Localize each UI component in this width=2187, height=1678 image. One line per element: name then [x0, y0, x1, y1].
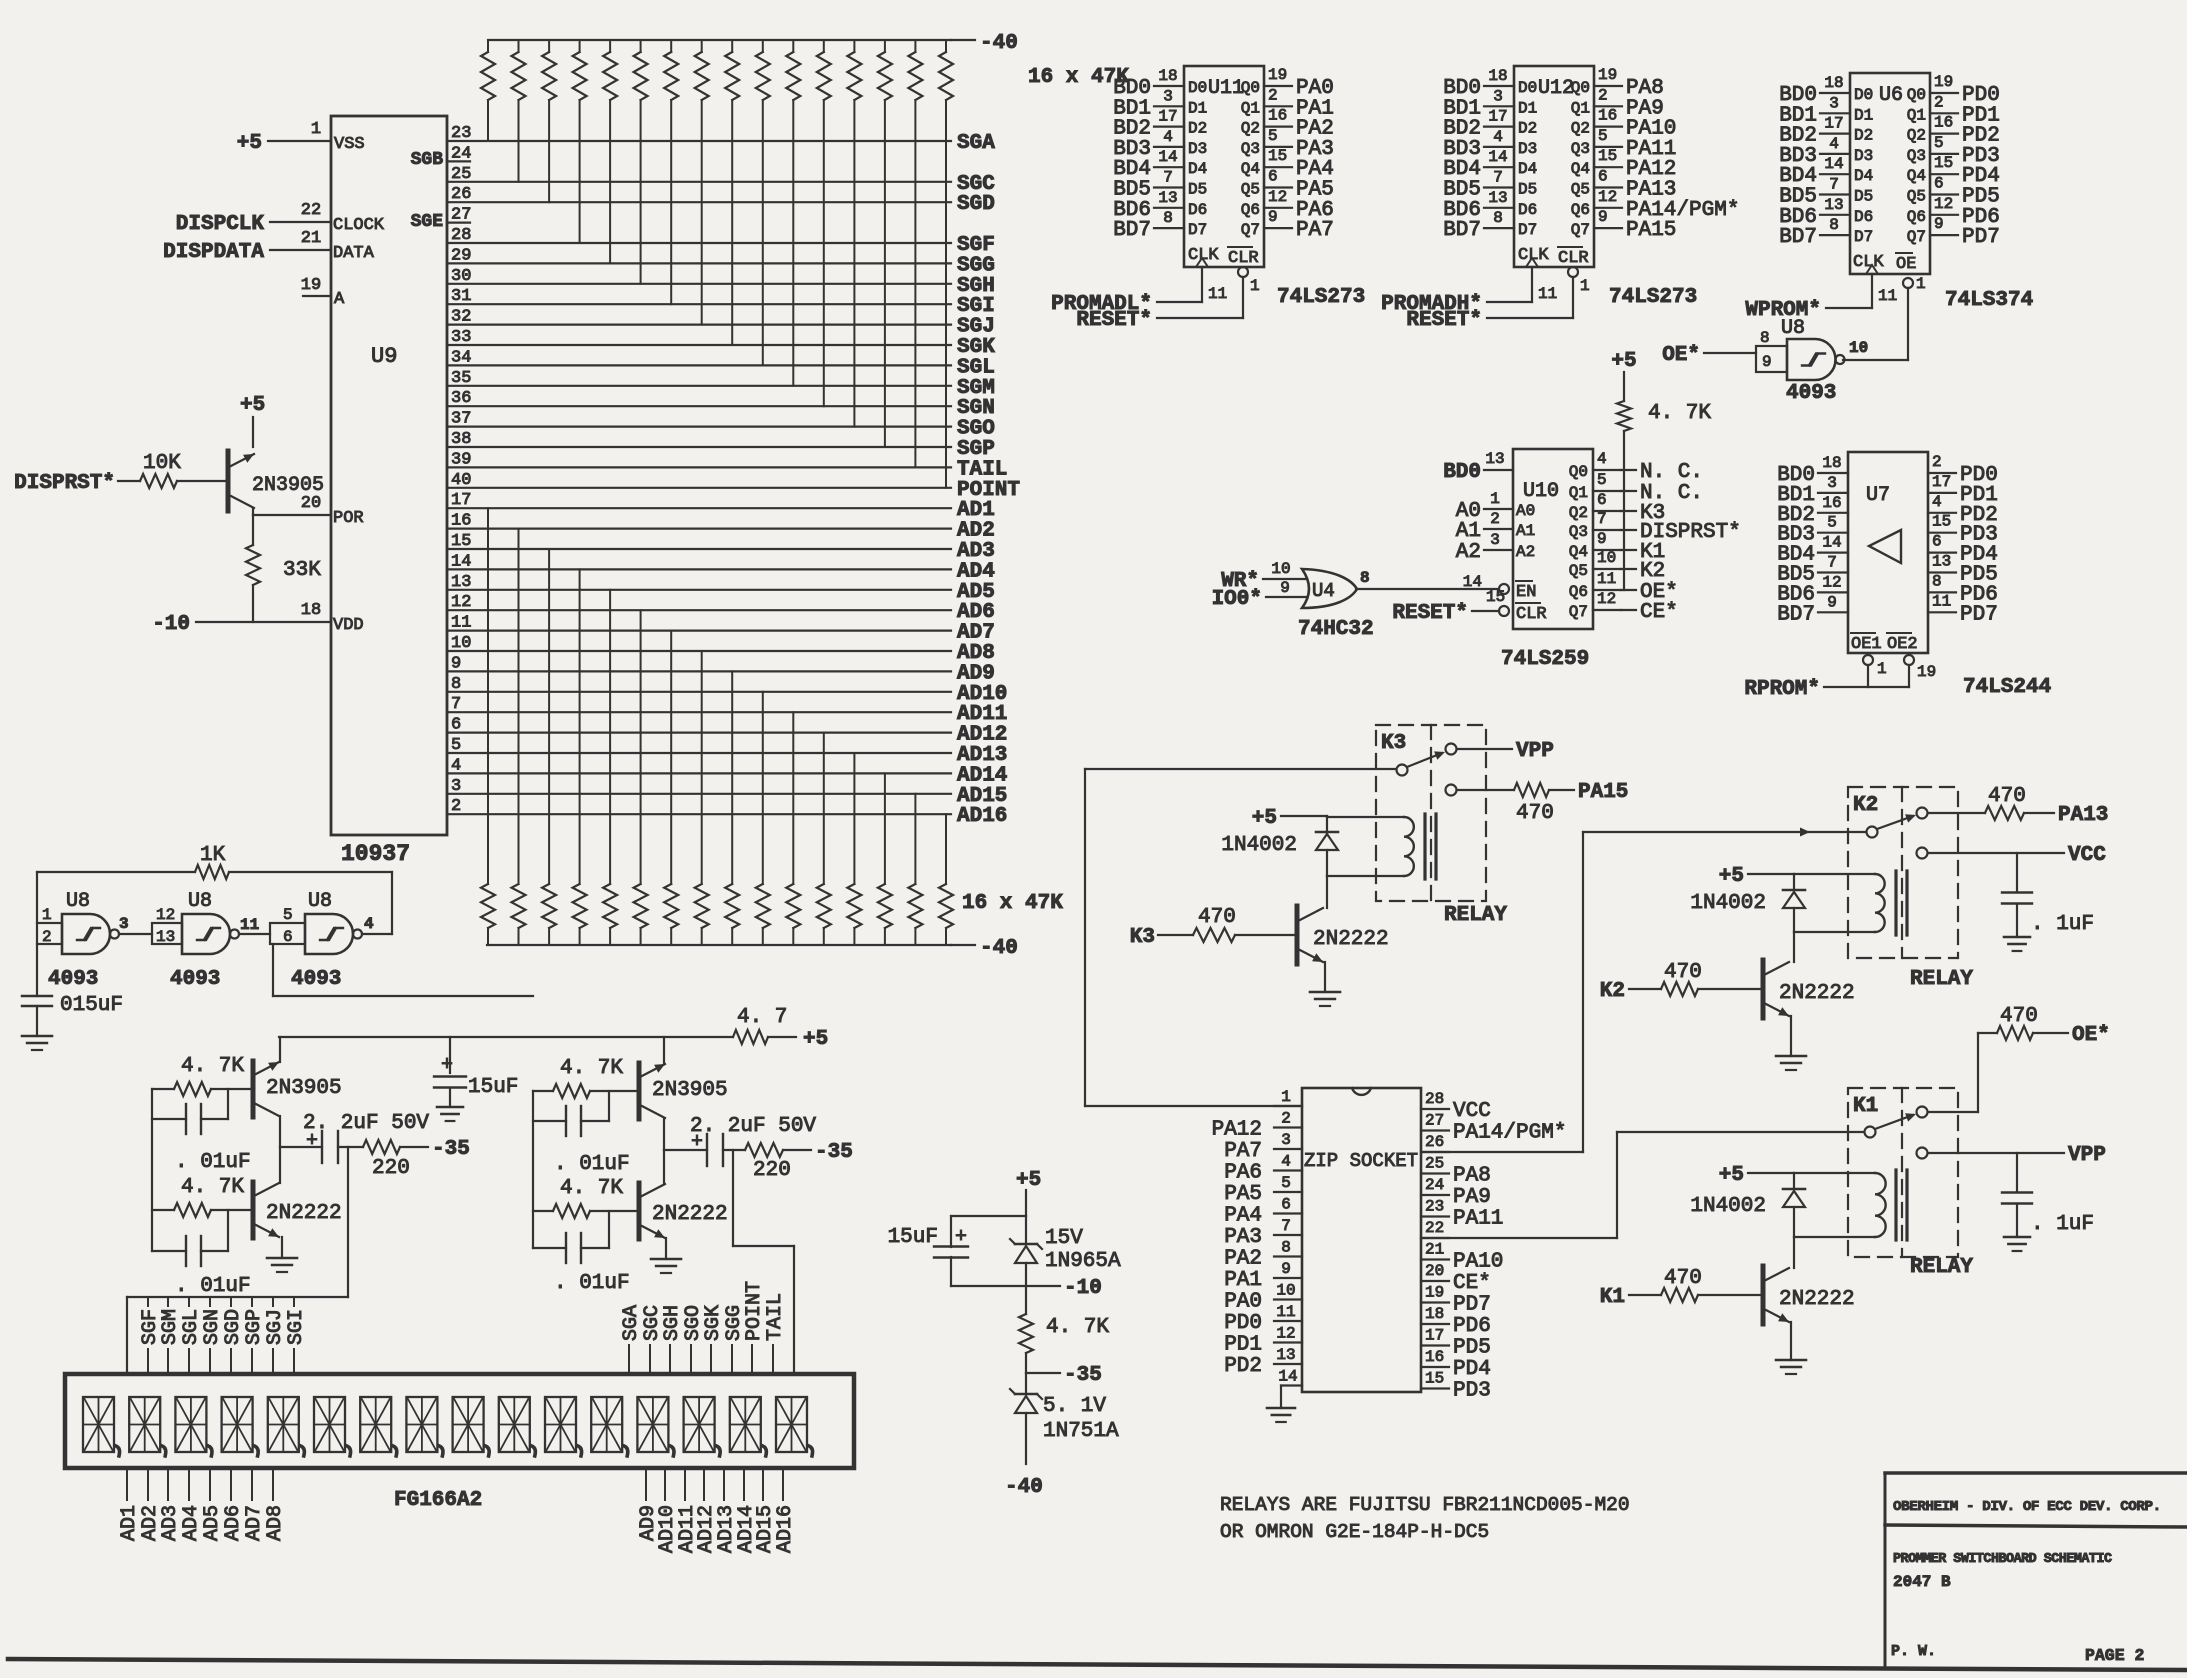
svg-text:4093: 4093 [170, 968, 220, 991]
svg-text:15uF: 15uF [888, 1226, 938, 1249]
net OE* at K1 [2072, 1024, 2110, 1047]
U9 pin 24 stub [447, 160, 470, 162]
svg-text:15uF: 15uF [468, 1076, 518, 1099]
bottom -40 bus for address pull-down resistors [487, 944, 975, 946]
U10 pin 10 output to K2 [1593, 549, 1636, 569]
U9 pin 8 number [451, 675, 461, 694]
net label K2 [1640, 560, 1665, 583]
U7 OE2 pin 19 enable [1887, 633, 1936, 687]
resistor 4.7K A upper [152, 1055, 251, 1096]
svg-text:2N2222: 2N2222 [1779, 982, 1855, 1005]
wire AD6 to bottom resistor #6 [640, 610, 642, 884]
net label BD3 at U12 [1443, 138, 1481, 161]
ZIP pin 14 to ground [1267, 1368, 1302, 1423]
wire U8c input down to drivers [273, 944, 533, 996]
resistor 47K bottom bank #3 [542, 884, 556, 945]
net label PA11 at U12 [1626, 138, 1676, 161]
svg-text:RELAY: RELAY [1910, 1256, 1973, 1279]
resistor 1K [195, 844, 229, 879]
display bottom pin net AD4 [180, 1468, 203, 1541]
svg-text:CE*: CE* [1640, 601, 1678, 624]
svg-text:12: 12 [1597, 590, 1616, 608]
relay K1 NO contact to 470/OE* [1917, 1107, 1979, 1118]
svg-text:3: 3 [1829, 94, 1839, 112]
wire U9 pin 28 to net SGF [447, 242, 951, 244]
value 16 x 47K (top bank) [1028, 66, 1129, 89]
svg-text:K1: K1 [1600, 1286, 1625, 1309]
svg-text:. 1uF: . 1uF [2031, 913, 2094, 936]
svg-text:POR: POR [333, 509, 364, 528]
title schematic name [1893, 1552, 2112, 1567]
svg-text:3: 3 [119, 915, 129, 933]
ground at VCC cap [2004, 937, 2030, 951]
U7 buffer triangle symbol [1869, 530, 1901, 563]
svg-text:OBERHEIM - DIV. OF ECC DEV. CO: OBERHEIM - DIV. OF ECC DEV. CORP. [1893, 1499, 2161, 1515]
net label BD7 at U12 [1443, 219, 1481, 242]
svg-text:Q2: Q2 [1571, 120, 1590, 138]
wire U9 pin 2 to net AD16 [447, 813, 951, 815]
wire RPROM* to U7 OE1/OE2 [1824, 686, 1909, 688]
net label SGL [957, 356, 995, 379]
svg-text:4: 4 [364, 915, 374, 933]
net label BD1 at U7 [1777, 484, 1815, 507]
svg-text:SGL: SGL [180, 1309, 203, 1345]
svg-text:K2: K2 [1640, 560, 1665, 583]
svg-text:Q2: Q2 [1241, 120, 1260, 138]
U6 pin 3 input BD1 [1820, 94, 1850, 113]
wire U9 pin 34 to net SGL [447, 364, 951, 366]
svg-text:1: 1 [1877, 660, 1887, 678]
net label BD5 at U12 [1443, 179, 1481, 202]
wire resistor #11 to SGM row [792, 100, 794, 386]
display top pin net SGK [702, 1305, 725, 1374]
ZIP pin 27 output PA14/PGM* [1421, 1112, 1449, 1131]
U9 pin 27 number [451, 206, 471, 225]
svg-text:74LS374: 74LS374 [1945, 289, 2033, 312]
IC ZIP SOCKET body [1302, 1088, 1421, 1392]
svg-text:19: 19 [301, 276, 321, 295]
U7 part 74LS244 [1963, 676, 2051, 699]
U7 pin 7 input BD5 [1818, 554, 1848, 573]
svg-text:15: 15 [1934, 154, 1953, 172]
relay K2 common contact [1867, 827, 1878, 838]
svg-text:U8: U8 [308, 890, 332, 913]
svg-text:3: 3 [1827, 474, 1837, 492]
display digit 5 (16-segment) [268, 1397, 305, 1456]
svg-text:6: 6 [1597, 491, 1607, 509]
svg-text:11: 11 [1538, 285, 1557, 303]
svg-text:8: 8 [1760, 329, 1770, 347]
ZIP pin 13 input PD2 [1274, 1346, 1302, 1364]
ZIP pin 19 output PD7 [1421, 1284, 1449, 1303]
svg-text:9: 9 [1827, 593, 1837, 611]
display bottom pin net AD7 [243, 1468, 266, 1541]
resistor 47K bottom bank #2 [512, 884, 526, 945]
display top pin net SGM [159, 1297, 182, 1374]
net -35 [1064, 1364, 1102, 1387]
svg-text:Q4: Q4 [1571, 160, 1590, 178]
net label PA13 at U12 [1626, 179, 1676, 202]
svg-text:1N751A: 1N751A [1043, 1420, 1119, 1443]
svg-text:220: 220 [753, 1159, 791, 1182]
relay K3 common contact [1397, 765, 1408, 776]
net label BD6 at U6 [1779, 206, 1817, 229]
ZIP pin 26 wire [1421, 1133, 1449, 1152]
wire A PNP collector to output [279, 1116, 281, 1147]
display top pin net SGN [201, 1297, 224, 1374]
relay K3 switch arm [1407, 751, 1445, 767]
wire U9 pin 39 to net TAIL [447, 466, 951, 468]
net label PD1 at U6 [1962, 104, 2000, 127]
wire resistor #10 to SGL row [762, 100, 764, 365]
resistor 470 to PA15 [1514, 783, 1574, 825]
svg-text:9: 9 [1597, 530, 1607, 548]
value 16 x 47K (bottom bank) [962, 892, 1063, 915]
svg-text:4. 7K: 4. 7K [1648, 402, 1711, 425]
wire U9 pin 37 to net SGO [447, 426, 951, 428]
svg-text:10: 10 [1276, 1282, 1295, 1300]
relay designator K2 [1853, 794, 1878, 817]
display top pin net SGO [682, 1305, 705, 1374]
wire resistor #13 to SGO row [853, 100, 855, 427]
resistor 47K bottom bank #11 [786, 884, 800, 945]
svg-text:2: 2 [1932, 453, 1942, 471]
U11 pin 8 input BD7 [1154, 209, 1184, 228]
svg-text:AD3: AD3 [159, 1505, 182, 1541]
gate U8c 4093 input box pins 5,6 [270, 906, 305, 946]
transistor 2N2222 B (NPN) [639, 1183, 728, 1239]
svg-text:11: 11 [1878, 287, 1897, 305]
display digit 3 (16-segment) [175, 1397, 212, 1456]
wire U9 pin 3 to net AD15 [447, 793, 951, 795]
svg-text:9: 9 [1762, 353, 1772, 371]
resistor 47K top bank #4 [573, 40, 587, 100]
svg-text:Q0: Q0 [1569, 463, 1588, 481]
svg-text:Q7: Q7 [1241, 221, 1260, 239]
resistor 220 driver B [745, 1143, 811, 1182]
net label PA4 at ZIP [1224, 1205, 1262, 1228]
U7 pin 9 input BD7 [1818, 593, 1848, 612]
svg-text:AD4: AD4 [180, 1505, 203, 1541]
resistor 47K top bank #10 [756, 40, 770, 100]
svg-text:CLR: CLR [1228, 249, 1259, 268]
svg-text:1: 1 [1250, 277, 1260, 295]
svg-text:+5: +5 [1719, 1164, 1744, 1187]
svg-text:23: 23 [1425, 1198, 1444, 1216]
svg-text:19: 19 [1917, 663, 1936, 681]
svg-text:Q0: Q0 [1571, 79, 1590, 97]
ZIP pin 28 output VCC [1421, 1090, 1449, 1109]
wire resistor #3 to SGD row [548, 100, 550, 202]
net label BD0 at U7 [1777, 464, 1815, 487]
U9 pin 40 number [451, 471, 471, 490]
svg-text:U11: U11 [1208, 77, 1244, 100]
net label PA3 at U11 [1296, 138, 1334, 161]
display digit 2 (16-segment) [129, 1397, 166, 1456]
net label PA6 at ZIP [1224, 1162, 1262, 1185]
svg-text:D1: D1 [1188, 99, 1207, 117]
svg-text:15: 15 [1598, 147, 1617, 165]
display digit 13 (16-segment) [637, 1397, 674, 1456]
svg-text:13: 13 [1824, 196, 1843, 214]
svg-text:PA15: PA15 [1626, 219, 1676, 242]
U6 pin 13 input BD6 [1820, 196, 1850, 215]
U12 pin 4 input BD3 [1484, 128, 1514, 147]
ZIP pin 18 output PD6 [1421, 1305, 1449, 1324]
wire U9 pin 10 to net AD8 [447, 650, 951, 652]
wire U9 pin 6 to net AD12 [447, 731, 951, 733]
net label PA7 at ZIP [1224, 1140, 1262, 1163]
wire AD2 to bottom resistor #2 [518, 529, 520, 884]
U12 pin 2 output PA9 [1594, 86, 1622, 106]
ground at 15uF [437, 1107, 463, 1121]
svg-text:5: 5 [1268, 127, 1278, 145]
wire U9 pin 7 to net AD11 [447, 711, 951, 713]
svg-text:4. 7K: 4. 7K [560, 1057, 623, 1080]
svg-text:5: 5 [1598, 127, 1608, 145]
net label PD6 at U7 [1960, 583, 1998, 606]
svg-text:. 01uF: . 01uF [554, 1272, 630, 1295]
resistor 47K bottom bank #7 [664, 884, 678, 945]
svg-text:D6: D6 [1518, 201, 1537, 219]
svg-text:RESET*: RESET* [1392, 602, 1468, 625]
svg-text:PA14/PGM*: PA14/PGM* [1453, 1122, 1566, 1145]
wire U9 pin 33 to net SGK [447, 344, 951, 346]
capacitor 2.2uF 50V driver B output [664, 1115, 816, 1166]
net label PA0 at U11 [1296, 77, 1334, 100]
U6 pin 4 input BD3 [1820, 135, 1850, 154]
wire U9 pin 38 to net SGP [447, 446, 951, 448]
svg-text:SGA: SGA [620, 1305, 643, 1341]
resistor 47K bottom bank #6 [634, 884, 648, 945]
capacitor .01uF A upper [152, 1089, 251, 1174]
ground at VPP cap [2004, 1237, 2030, 1251]
ZIP pin 1 [1274, 1088, 1302, 1106]
svg-text:Q2: Q2 [1907, 127, 1926, 145]
U6 pin 6 output PD5 [1930, 175, 1958, 195]
net label PA12 at ZIP [1212, 1119, 1262, 1142]
U7 pin 6 output PD4 [1928, 533, 1956, 553]
ZIP pin 16 output PD4 [1421, 1348, 1449, 1367]
resistor 33K [246, 515, 321, 622]
U9 internal signal SGE [411, 212, 444, 232]
K1 RELAY caption [1910, 1256, 1973, 1279]
svg-text:U10: U10 [1523, 480, 1559, 503]
net label PD3 at ZIP [1453, 1380, 1491, 1403]
wire resistor #9 to SGK row [731, 100, 733, 345]
net label BD5 at U6 [1779, 186, 1817, 209]
op-amp U8d 4093 NAND gate [1781, 317, 1845, 380]
relay K2 coil [1794, 871, 1907, 935]
U11 pin 16 output PA2 [1264, 107, 1292, 127]
capacitor 2.2uF 50V driver A output [280, 1112, 429, 1163]
svg-text:K3: K3 [1130, 926, 1155, 949]
wire U9 pin 11 to net AD7 [447, 629, 951, 631]
U12 pin 15 output PA12 [1594, 147, 1622, 167]
svg-text:SGN: SGN [201, 1309, 224, 1345]
resistor 47K bottom bank #14 [878, 884, 892, 945]
U12 pin 7 input BD5 [1484, 169, 1514, 188]
svg-text:AD16: AD16 [957, 805, 1007, 828]
svg-text:DISPDATA: DISPDATA [163, 241, 264, 264]
U7 pin 15 output PD3 [1928, 513, 1956, 533]
U6 pin 19 output PD0 [1930, 73, 1958, 93]
svg-text:15V: 15V [1045, 1227, 1083, 1250]
U6 CLK pin 11 clock input [1853, 253, 1897, 308]
resistor 4.7K B upper [533, 1057, 637, 1098]
U9 pin 3 number [451, 777, 461, 796]
svg-text:SGD: SGD [222, 1309, 245, 1345]
net label BD1 at U11 [1113, 97, 1151, 120]
svg-text:2: 2 [1934, 93, 1944, 111]
svg-text:470: 470 [1664, 1267, 1702, 1290]
ground at K1 transistor emitter [1776, 1322, 1806, 1374]
net label N. C. [1640, 482, 1703, 505]
wire AD15 to bottom resistor #15 [914, 794, 916, 884]
net label AD14 [957, 764, 1007, 787]
svg-text:470: 470 [2000, 1005, 2038, 1028]
wire AD7 to bottom resistor #7 [670, 631, 672, 884]
svg-text:D0: D0 [1188, 79, 1207, 97]
net label PA8 at U12 [1626, 77, 1664, 100]
display FG166A2 body [65, 1374, 854, 1468]
+5 net at Q1 emitter [240, 394, 265, 417]
svg-text:5: 5 [283, 906, 293, 924]
note relays text line 1 [1220, 1494, 1630, 1516]
net label PD2 at ZIP [1224, 1355, 1262, 1378]
svg-text:19: 19 [1598, 66, 1617, 84]
U6 pin 9 output PD7 [1930, 215, 1958, 235]
svg-text:4093: 4093 [48, 968, 98, 991]
net label BD3 at U11 [1113, 138, 1151, 161]
U9 pin 26 number [451, 185, 471, 204]
svg-text:7: 7 [1827, 554, 1837, 572]
svg-text:7: 7 [1281, 1217, 1291, 1235]
U10 EN pin 14 enable [1463, 573, 1537, 602]
net label AD2 [957, 520, 995, 543]
net label PA10 at U12 [1626, 118, 1676, 141]
svg-text:RESET*: RESET* [1076, 309, 1152, 332]
U11 pin 14 input BD4 [1154, 148, 1184, 167]
resistor 470 to PA13 [1985, 785, 2054, 820]
wire RESET* to U11 CLR [1157, 317, 1243, 319]
U11 pin 6 output PA5 [1264, 168, 1292, 188]
svg-text:SGI: SGI [285, 1309, 308, 1345]
U8a part 4093 [48, 968, 98, 991]
svg-text:13: 13 [1276, 1346, 1295, 1364]
ZIP pin 7 input PA3 [1274, 1217, 1302, 1235]
+5 net at K3 coil [1252, 807, 1277, 830]
net label AD15 [957, 785, 1007, 808]
resistor 47K bottom bank #4 [573, 884, 587, 945]
svg-text:4: 4 [1493, 128, 1503, 146]
wire WR* to U4 pin 10 [1263, 560, 1307, 579]
svg-text:. 01uF: . 01uF [175, 1275, 251, 1298]
U9 pin 12 number [451, 593, 471, 612]
diode 1N4002 at K3 coil [1221, 816, 1338, 876]
wire resistor #4 to SGF row [579, 100, 581, 243]
wire B NPN collector to output [663, 1150, 665, 1184]
net label PA9 at U12 [1626, 97, 1664, 120]
display top pin net SGG [723, 1305, 746, 1374]
display digit 6 (16-segment) [314, 1397, 351, 1456]
U9 internal signal SGB [411, 150, 444, 170]
svg-text:8: 8 [1281, 1239, 1291, 1257]
capacitor .01uF A lower [152, 1210, 251, 1298]
resistor 47K top bank #15 [908, 40, 922, 100]
svg-text:1: 1 [1580, 277, 1590, 295]
net label PA8 at ZIP [1453, 1165, 1491, 1188]
U11 pin 12 output PA6 [1264, 188, 1292, 208]
U6 pin 2 output PD1 [1930, 93, 1958, 113]
svg-text:74HC32: 74HC32 [1298, 618, 1374, 641]
display top pin net SGA [620, 1305, 643, 1374]
svg-text:18: 18 [1488, 67, 1507, 85]
ZIP pin 20 output CE* [1421, 1262, 1449, 1281]
title number 2047 B [1893, 1573, 1951, 1591]
net label SGK [957, 336, 995, 359]
IC U9 (10937 display controller) body [331, 116, 447, 835]
net label SGA [957, 132, 995, 155]
display bottom pin net AD9 [637, 1468, 660, 1541]
svg-text:1: 1 [42, 906, 52, 924]
display bottom pin net AD13 [715, 1468, 738, 1553]
U9 pin 30 number [451, 267, 471, 286]
svg-text:PD5: PD5 [1453, 1337, 1491, 1360]
svg-text:4. 7K: 4. 7K [181, 1176, 244, 1199]
U9 pin 37 number [451, 410, 471, 429]
svg-text:IO0*: IO0* [1212, 588, 1262, 611]
capacitor .015uF oscillator [22, 944, 123, 1036]
U8b output pin 11 [240, 916, 259, 934]
U10 pin 3 input A2 [1484, 531, 1535, 561]
svg-text:5: 5 [1827, 514, 1837, 532]
wire resistor #12 to SGN row [823, 100, 825, 406]
transistor 2N3905 B (PNP) [639, 1063, 728, 1119]
wire AD11 to bottom resistor #11 [792, 712, 794, 884]
svg-text:10: 10 [1597, 549, 1616, 567]
svg-text:7: 7 [1493, 169, 1503, 187]
net label SGO [957, 418, 995, 441]
svg-text:9: 9 [1934, 215, 1944, 233]
svg-text:74LS273: 74LS273 [1277, 286, 1365, 309]
net label PD5 at U7 [1960, 564, 1998, 587]
svg-text:CLR: CLR [1516, 605, 1547, 624]
U11 CLK pin 11 clock input [1188, 246, 1227, 303]
+5 net above zener chain [1016, 1169, 1041, 1192]
svg-text:19: 19 [1425, 1284, 1444, 1302]
resistor 10K [140, 452, 181, 488]
transistor 2N3905 A (PNP) [253, 1061, 342, 1117]
svg-text:4: 4 [1932, 493, 1942, 511]
resistor 470 at K1 base [1629, 1267, 1761, 1302]
svg-text:1N965A: 1N965A [1045, 1250, 1121, 1273]
U6 OE pin 1 output enable [1896, 253, 1926, 360]
svg-text:DATA: DATA [333, 244, 375, 263]
wire U9 pin 12 to net AD6 [447, 609, 951, 611]
svg-text:74LS259: 74LS259 [1501, 648, 1589, 671]
wire resistor #5 to SGG row [609, 100, 611, 263]
ground at .015uF [22, 1036, 52, 1050]
wire U9 pin 36 to net SGN [447, 405, 951, 407]
svg-text:12: 12 [1276, 1325, 1295, 1343]
U7 OE1 pin 1 enable [1851, 633, 1887, 687]
net label PA14/PGM* at ZIP [1453, 1122, 1566, 1145]
svg-text:1N4002: 1N4002 [1690, 892, 1766, 915]
svg-text:15: 15 [1486, 588, 1505, 606]
net WR* [1221, 570, 1259, 593]
svg-text:21: 21 [301, 229, 321, 248]
